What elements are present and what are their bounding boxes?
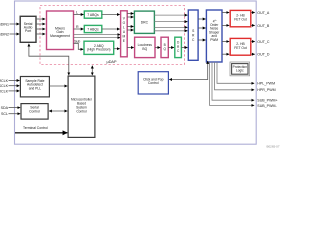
svg-text:LRCLK: LRCLK bbox=[0, 89, 9, 93]
wire loudness BQ to BQ bbox=[155, 47, 160, 49]
wire HPL_PWM from noise shaper bbox=[217, 62, 254, 83]
block: Serial Control bbox=[21, 104, 48, 120]
svg-text:DRC: DRC bbox=[141, 20, 149, 24]
block: Click and Pop Control bbox=[138, 72, 168, 94]
svg-text:BQ: BQ bbox=[142, 47, 147, 51]
block: 4th Order Noise Shaper and PWM bbox=[206, 10, 222, 62]
block: 2-HB FET Out (A/B) bbox=[230, 10, 251, 26]
wire SUB_PWM- from noise shaper bbox=[210, 62, 255, 105]
svg-text:Port: Port bbox=[25, 29, 31, 33]
wires noise shaper to HB FET out C/D bbox=[222, 41, 229, 43]
wire LRCLK bbox=[9, 90, 20, 92]
wire OUT_D bbox=[251, 53, 255, 55]
wire OUT_B bbox=[251, 24, 255, 26]
wire SUB_PWM+ from noise shaper bbox=[212, 62, 254, 100]
svg-text:OUT_C: OUT_C bbox=[257, 40, 270, 44]
svg-text:SDIN2: SDIN2 bbox=[0, 32, 9, 36]
wire 2ABQ to volume bbox=[114, 48, 120, 50]
block: Protection Logic (double border) bbox=[230, 62, 250, 76]
svg-text:HPR_PWM: HPR_PWM bbox=[257, 88, 275, 92]
svg-text:L: L bbox=[123, 26, 125, 30]
block: Volume bbox=[121, 11, 128, 57]
wire DRC mono to SRC bbox=[181, 47, 187, 49]
svg-text:SDIN1: SDIN1 bbox=[0, 22, 9, 26]
svg-text:and PLL: and PLL bbox=[29, 86, 41, 90]
svg-text:OUT_B: OUT_B bbox=[257, 24, 270, 28]
svg-text:Control: Control bbox=[29, 109, 40, 113]
wire SCLK bbox=[9, 85, 20, 87]
wire microcontroller to uDAP region (bidirectional) bbox=[91, 66, 93, 76]
wire SDIN1 into serial audio port bbox=[10, 23, 20, 25]
block: DRC (stereo) bbox=[134, 11, 154, 33]
svg-text:Control: Control bbox=[148, 81, 159, 85]
svg-text:OUT_A: OUT_A bbox=[257, 11, 270, 15]
block: 2-HB FET Out (C/D) bbox=[230, 38, 251, 55]
wire sample rate to microcontroller bbox=[49, 85, 67, 87]
svg-text:SUB_PWM+: SUB_PWM+ bbox=[257, 99, 277, 103]
block: BQ bbox=[161, 37, 168, 57]
wires SRC to noise shaper (3) bbox=[198, 19, 206, 40]
svg-text:B0265-07: B0265-07 bbox=[266, 144, 279, 148]
block: Microcontroller Based System Control bbox=[68, 76, 95, 137]
svg-text:FET Out: FET Out bbox=[234, 46, 246, 50]
wire 7ABQs R to volume bbox=[102, 28, 120, 30]
block: Mixers Gain Management bbox=[47, 11, 74, 50]
svg-text:MCLK: MCLK bbox=[0, 79, 9, 83]
svg-text:O: O bbox=[123, 21, 126, 25]
wire BQ to DRC mono bbox=[168, 47, 174, 49]
svg-text:7 ABQs: 7 ABQs bbox=[87, 13, 99, 17]
uDAP dashed region box bbox=[40, 6, 185, 65]
svg-text:Sub: Sub bbox=[74, 39, 80, 43]
svg-text:SDA: SDA bbox=[1, 106, 9, 110]
wire serial control to microcontroller (bidirectional) bbox=[49, 110, 67, 112]
wire OUT_A bbox=[251, 12, 255, 14]
svg-text:R: R bbox=[76, 25, 79, 29]
wire OUT_C bbox=[251, 41, 255, 43]
svg-text:7 ABQs: 7 ABQs bbox=[87, 27, 99, 31]
wire Sub: mixers to 2 ABQ high precision bbox=[74, 43, 84, 49]
wire R: mixers to 7 ABQs (bottom) bbox=[74, 28, 84, 30]
wire SCL bbox=[9, 113, 21, 115]
svg-text:Terminal Control: Terminal Control bbox=[23, 126, 48, 130]
svg-text:µDAP: µDAP bbox=[107, 60, 117, 64]
wire terminal control bbox=[15, 132, 67, 134]
wire volume to loudness BQ bbox=[127, 47, 134, 49]
wires noise shaper to HB FET out A/B bbox=[222, 12, 229, 14]
wire 7ABQs L to volume bbox=[102, 14, 120, 16]
svg-text:(High Precision): (High Precision) bbox=[87, 48, 110, 52]
block: Loudness BQ bbox=[135, 37, 155, 57]
block: 2 ABQ (High Precision) bbox=[84, 41, 114, 54]
wire HPR_PWM from noise shaper bbox=[215, 62, 255, 90]
svg-text:FET Out: FET Out bbox=[234, 17, 246, 21]
block: Sample Rate Autodetect and PLL bbox=[20, 77, 49, 97]
wires DRC to SRC (4 long) bbox=[154, 15, 187, 31]
wires volume to DRC (4) bbox=[127, 14, 133, 31]
svg-text:HPL_PWM: HPL_PWM bbox=[257, 82, 275, 86]
block: DRC (mono) bbox=[175, 37, 182, 57]
wire pair: mixers to volume (bypass grays) bbox=[74, 34, 121, 36]
wires serial audio port to mixers (4) bbox=[36, 19, 45, 34]
wire MCLK bbox=[9, 80, 20, 82]
wire L: mixers to 7 ABQs (top) bbox=[74, 14, 84, 16]
svg-text:L: L bbox=[76, 10, 78, 14]
block: Serial Audio Port bbox=[20, 16, 36, 42]
wire SDIN2 into serial audio port bbox=[10, 33, 20, 35]
svg-text:Logic: Logic bbox=[236, 69, 244, 73]
svg-text:SCLK: SCLK bbox=[0, 84, 9, 88]
block: SRC bbox=[188, 10, 198, 60]
svg-text:SUB_PWM-: SUB_PWM- bbox=[257, 104, 277, 108]
svg-text:M: M bbox=[123, 35, 126, 39]
chip boundary frame bbox=[15, 1, 257, 144]
block: 7 ABQs right channel bbox=[84, 25, 102, 32]
wire SDA bbox=[9, 107, 21, 109]
svg-text:Management: Management bbox=[50, 34, 70, 38]
svg-text:SCL: SCL bbox=[1, 112, 8, 116]
svg-text:OUT_D: OUT_D bbox=[257, 53, 270, 57]
block: 7 ABQs left channel bbox=[84, 11, 102, 18]
wire serial audio port to microcontroller (bidirectional) bbox=[29, 44, 69, 75]
svg-text:PWM: PWM bbox=[210, 38, 218, 42]
svg-text:Control: Control bbox=[76, 109, 87, 113]
wire noise shaper to click and pop control bbox=[169, 61, 208, 80]
